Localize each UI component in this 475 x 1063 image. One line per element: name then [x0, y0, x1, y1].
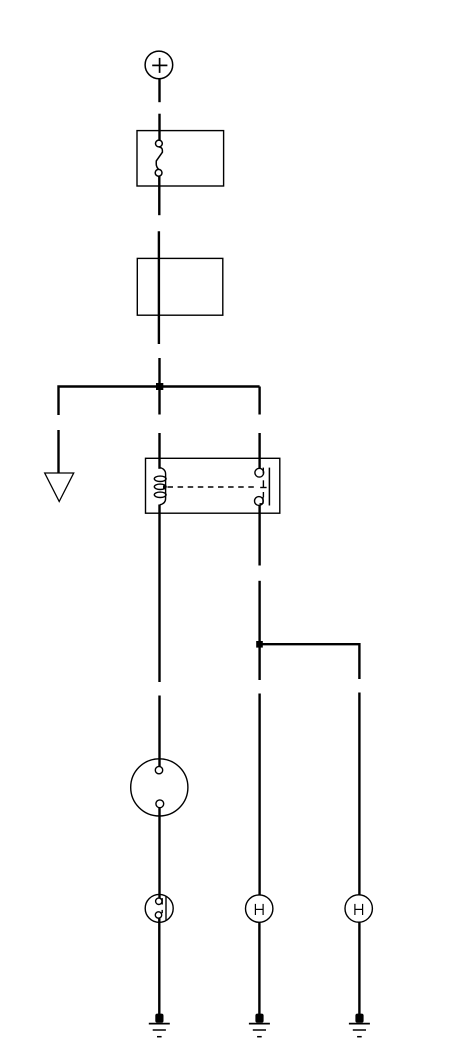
wire fusible link to fuse (lower segment): [158, 231, 160, 344]
wire left branch lower segment: [57, 430, 59, 473]
battery B1 positive terminal: [145, 51, 173, 79]
slip ring connector (steering): [131, 759, 188, 816]
horn relay box: [146, 458, 280, 513]
relay actuation dashed link: [163, 486, 254, 489]
wire junction horizontal bus: [59, 387, 260, 416]
ground G3: [349, 1014, 370, 1037]
node junction A: [156, 383, 163, 390]
wire right branch to horn H2 (lower segment): [358, 693, 360, 895]
wire horn switch to ground G1: [158, 918, 160, 1015]
wire junction B to horn H1 (upper segment): [258, 644, 260, 680]
wire horn H2 to ground G3: [358, 922, 360, 1015]
wire junction to relay coil (lower segment): [158, 433, 160, 469]
relay coil L1: [154, 468, 166, 505]
fusible link box: [137, 131, 224, 186]
wire junction B to horn H1 (lower segment): [258, 694, 260, 896]
horn H1: [246, 895, 273, 922]
ground G1: [149, 1014, 170, 1037]
wire fuse to junction: [158, 358, 160, 388]
wire junction to relay coil (upper segment): [158, 387, 160, 415]
wire fusible link to fuse (upper segment): [158, 176, 160, 215]
wire slip ring to horn switch: [158, 808, 160, 898]
wire battery to fusible link (lower segment): [158, 114, 160, 141]
wire junction to relay contact (upper segment): [258, 387, 260, 415]
fusible link element FL: [155, 140, 162, 176]
wire relay contact to junction B (upper segment): [258, 505, 260, 565]
connector arrow to other circuit: [45, 473, 74, 502]
fuse box: [137, 258, 223, 315]
horn H2: [345, 895, 372, 922]
wire relay contact to junction B (lower segment): [258, 581, 260, 644]
wire relay coil to slip ring (upper segment): [158, 505, 160, 683]
wire junction B horizontal to right horn: [260, 644, 360, 679]
wire horn H1 to ground G2: [258, 922, 260, 1015]
wire battery to fusible link (upper segment): [158, 79, 160, 103]
node junction B: [256, 641, 263, 648]
wire relay coil to slip ring (lower segment): [158, 696, 160, 767]
horn switch SW1: [145, 894, 173, 922]
wire junction to relay contact (lower segment): [258, 433, 260, 468]
relay contact S1: [255, 468, 270, 506]
ground G2: [249, 1014, 270, 1037]
